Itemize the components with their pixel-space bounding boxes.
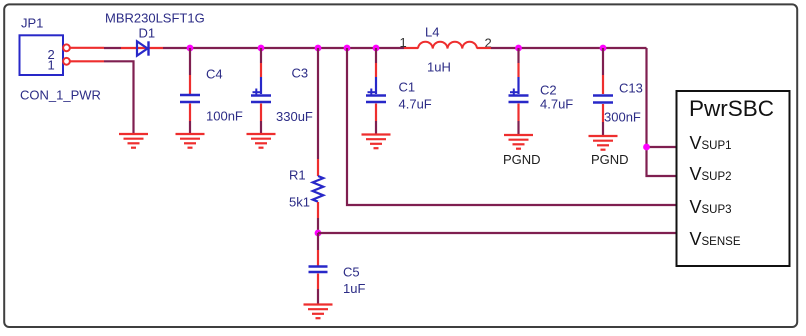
capacitor C4 [180,95,200,102]
wire top rail L4 to corner [491,47,647,49]
wire R1 top [317,48,319,159]
wire VSENSE [318,232,676,234]
svg-text:1: 1 [48,57,55,72]
wire C2 top pin [517,63,519,77]
svg-text:PGND: PGND [503,152,541,167]
wire C1 top [375,48,377,63]
svg-text:330uF: 330uF [276,109,313,124]
svg-text:300nF: 300nF [604,110,641,125]
svg-text:C3: C3 [292,66,309,81]
wire R1 to junction [317,218,319,233]
junction C4 [187,45,194,52]
wire C5 bottom pin [317,274,319,290]
wire C4 top [189,48,191,75]
wire C2 bottom pin [517,104,519,122]
wire junction to C5 [317,233,319,250]
svg-text:D1: D1 [139,26,156,41]
svg-text:L4: L4 [425,25,439,40]
wire VSUP3 [347,48,676,205]
wire C13 top [602,48,604,75]
svg-text:C1: C1 [399,80,416,95]
junction VSUP3 node [344,45,351,52]
wire R1 bottom pin [317,202,319,218]
junction C2 [515,45,522,52]
junction R1 [315,45,322,52]
inductor L4 [418,42,477,49]
wire VSUP1 stub [647,146,677,148]
wire pin2 red stub [70,47,104,49]
svg-text:CON_1_PWR: CON_1_PWR [20,88,101,103]
capacitor C2 (polarized) [509,77,529,102]
wire C5 to ground [317,289,319,304]
wire C13 bottom pin [602,104,604,122]
resistor R1 [313,176,324,202]
connector JP1 [20,35,70,75]
svg-text:JP1: JP1 [21,15,43,30]
wire C2 to ground [517,121,519,134]
wire pin1 red stub [70,60,104,62]
wire C13 to ground [602,122,604,135]
ground C3 [247,134,276,148]
wire C3 top [260,48,262,63]
wire L4 pin 1 stub [404,47,418,49]
wire C2 top [517,48,519,63]
svg-text:4.7uF: 4.7uF [540,97,573,112]
wire D1 anode pin [121,47,163,49]
svg-text:PGND: PGND [591,152,629,167]
wire top rail D1 to L4 [163,47,404,49]
diode D1 [137,41,149,55]
junction C1 [373,45,380,52]
wire pin2 to D1 [104,47,121,49]
wire C1 bottom pin [375,104,377,122]
block U1 PwrSBC [677,91,790,266]
wire R1 top pin [317,159,319,176]
wire vertical to VSUP pins [647,48,677,176]
svg-text:PwrSBC: PwrSBC [689,96,774,121]
svg-text:C13: C13 [619,81,643,96]
svg-text:5k1: 5k1 [289,195,310,210]
svg-text:R1: R1 [289,168,306,183]
wire C3 top pin [260,63,262,77]
junction VSENSE node [315,230,322,237]
wire C1 top pin [375,63,377,77]
ground C1 [362,135,391,149]
capacitor C3 (polarized) [251,77,271,102]
ground C5 [304,305,333,319]
svg-text:MBR230LSFT1G: MBR230LSFT1G [105,11,205,26]
wire C3 bottom pin [260,104,262,122]
junction VSUP1 [643,144,650,151]
svg-text:1uF: 1uF [343,281,365,296]
junction C13 [600,45,607,52]
wire C1 to ground [375,121,377,134]
wire C4 bottom pin [189,104,191,122]
junction C3 [258,45,265,52]
svg-text:C5: C5 [343,265,360,280]
wire pin1 to ground [104,61,134,133]
ground C2 (PGND) [504,135,533,149]
capacitor C1 (polarized) [366,77,386,102]
svg-text:C2: C2 [540,83,557,98]
capacitor C5 [309,267,328,273]
capacitor C13 [593,96,613,103]
wire C4 to ground [189,121,191,133]
wire C4 top pin [189,75,191,94]
wire C5 top pin [317,250,319,266]
svg-text:1uH: 1uH [427,60,451,75]
svg-text:1: 1 [400,35,407,50]
ground JP1 [119,134,148,148]
wire C3 to ground [260,121,262,133]
svg-text:4.7uF: 4.7uF [399,97,432,112]
svg-text:100nF: 100nF [206,109,243,124]
svg-text:C4: C4 [206,67,223,82]
ground C13 (PGND) [589,136,618,150]
wire L4 pin 2 stub [477,47,491,49]
ground C4 [176,134,205,148]
wire C13 top pin [602,75,604,94]
